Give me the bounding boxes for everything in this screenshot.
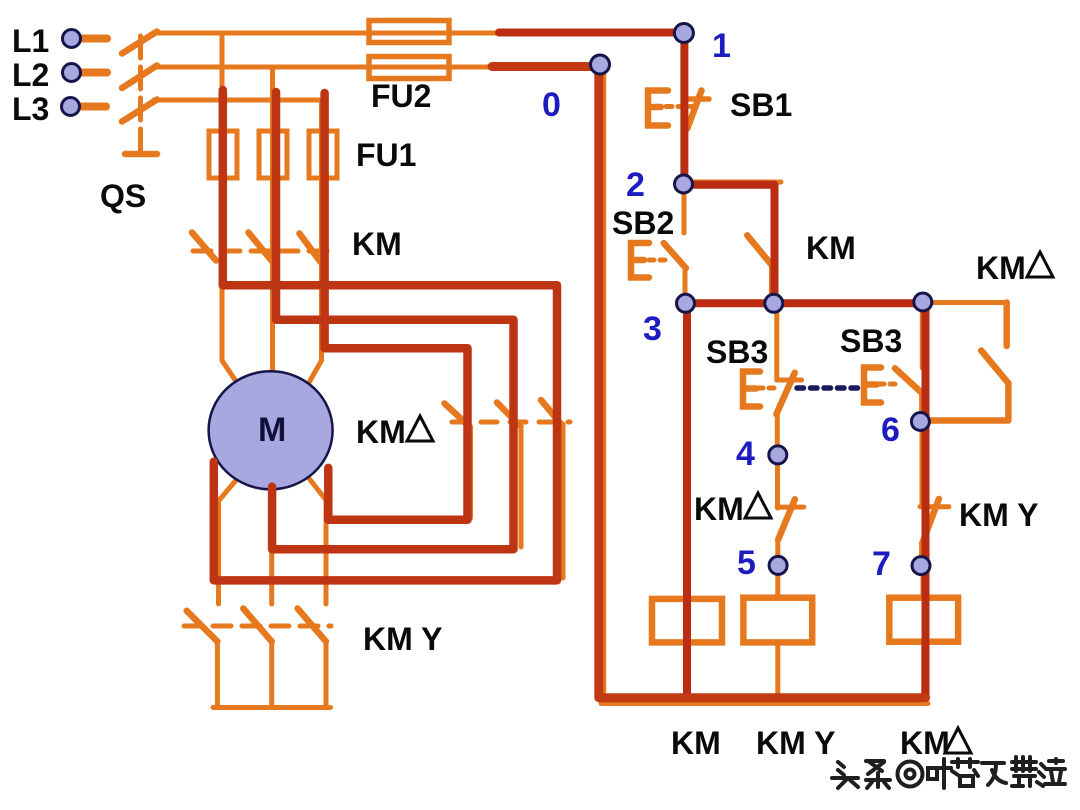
wire KM-delta pole 2 down xyxy=(519,426,524,548)
svg-text:4: 4 xyxy=(736,435,755,473)
contactor KM main pole 3 blade xyxy=(300,234,321,263)
highlight control from L1 to node2 xyxy=(499,33,684,185)
contactor KM-delta pole 1 blade xyxy=(445,404,470,427)
svg-text:KM Y: KM Y xyxy=(363,621,442,657)
svg-text:KM: KM xyxy=(352,226,402,262)
wire KM aux to node xyxy=(769,265,774,304)
svg-text:KM: KM xyxy=(694,491,744,527)
svg-text:1: 1 xyxy=(712,27,731,65)
wire node4 to KM-delta NC xyxy=(775,461,780,508)
wire KM-delta pole 3 down xyxy=(561,424,566,578)
wire phase B vertical xyxy=(270,67,275,370)
wire node to SB3 right xyxy=(920,304,925,368)
highlight L2 to node0 return bus xyxy=(492,67,926,698)
wire SB3 right to node6 xyxy=(919,392,924,422)
contactor KM main pole 1 blade xyxy=(192,233,216,261)
wire KM-delta aux to node6 xyxy=(927,417,1008,424)
highlight path phase A delta xyxy=(214,90,557,580)
contactor KM-Y pole 2 blade xyxy=(243,609,271,642)
highlight path phase C delta xyxy=(325,93,468,520)
wire SB2 to node3 xyxy=(683,268,688,304)
contactor KM-delta pole 2 blade xyxy=(497,403,520,426)
pushbutton SB1 tick xyxy=(686,96,709,102)
wire phase C vertical xyxy=(309,100,322,383)
wire phase L3 horizontal xyxy=(154,98,324,103)
switch QS pole 1 blade xyxy=(122,32,157,54)
svg-text:3: 3 xyxy=(643,310,662,348)
coil KM xyxy=(652,599,722,643)
wire blade to node5 xyxy=(775,540,780,565)
pushbutton SB2 link dots xyxy=(649,258,668,263)
node 1 xyxy=(674,24,693,43)
wire node2 to SB2 xyxy=(682,184,687,233)
svg-text:KM: KM xyxy=(671,725,721,761)
highlight node2 branch to rung3 xyxy=(683,185,775,303)
pushbutton SB1 cap xyxy=(648,91,668,126)
node junction rung3 right xyxy=(914,293,932,311)
wire coil KM-delta to bus xyxy=(921,642,926,704)
wire KM-delta aux down xyxy=(1005,383,1012,418)
wire node5 to coil KM-Y xyxy=(775,565,780,598)
contact KM-delta aux blade xyxy=(981,351,1008,384)
coil KM-delta xyxy=(889,598,958,642)
mechanical link SB3 dotted xyxy=(797,385,864,391)
motor lead bottom-middle xyxy=(269,496,274,604)
svg-text:FU1: FU1 xyxy=(356,137,416,173)
fuse FU1 pole 2 xyxy=(259,131,287,178)
switch QS linkage xyxy=(125,36,157,154)
wire node6 to KM-Y NC xyxy=(920,428,925,505)
svg-text:2: 2 xyxy=(626,166,645,204)
svg-text:0: 0 xyxy=(542,86,561,124)
fuse FU2 lower xyxy=(369,57,449,79)
contact KM-Y NC blade xyxy=(922,499,939,543)
fuse FU1 pole 1 xyxy=(209,131,237,178)
wire node0 return vertical xyxy=(601,65,606,704)
node junction rung3 mid xyxy=(765,294,783,312)
terminal L1 xyxy=(12,23,107,59)
node 2 xyxy=(675,175,693,193)
switch QS pole 3 blade xyxy=(122,100,157,122)
wire node3 down through KM coil to bus xyxy=(684,304,689,700)
contact KM aux blade xyxy=(747,235,771,264)
node 7 xyxy=(912,557,930,575)
terminal L2 xyxy=(12,57,107,93)
wire phase L2 horizontal xyxy=(154,65,602,70)
contact KM-delta NC tick xyxy=(777,505,804,510)
label coil KM-delta xyxy=(900,725,971,761)
terminal L3 xyxy=(12,91,106,127)
motor M xyxy=(209,371,333,489)
control wire from node1 down through SB1 to node2 xyxy=(682,33,687,184)
highlight path phase B delta xyxy=(272,92,513,549)
wire node2 to KM aux branch xyxy=(684,182,781,232)
wire KM-Y pole 2 down xyxy=(269,642,274,708)
svg-text:KM: KM xyxy=(356,414,406,450)
svg-text:KM: KM xyxy=(806,230,856,266)
pushbutton SB3 right link dots xyxy=(879,382,900,387)
wire coil KM-Y to bus xyxy=(775,642,780,703)
switch QS pole 2 blade xyxy=(122,66,157,89)
contactor KM-Y linkage xyxy=(184,624,331,629)
node 6 xyxy=(911,413,929,431)
wire KM-Y pole 3 down xyxy=(324,642,329,708)
watermark xyxy=(832,757,1065,788)
svg-text:SB3: SB3 xyxy=(840,323,902,359)
wire rung3 horizontal xyxy=(685,300,1007,305)
svg-text:7: 7 xyxy=(872,545,891,583)
highlight KM-delta coil branch xyxy=(922,303,930,698)
wire bottom bus orange xyxy=(601,701,928,706)
svg-text:FU2: FU2 xyxy=(371,78,431,114)
contactor KM-delta linkage xyxy=(452,420,570,425)
contactor KM main pole 2 blade xyxy=(249,233,272,262)
wire node to SB3 left xyxy=(774,304,779,380)
label KM-delta aux xyxy=(976,250,1053,286)
highlight rung3 horizontal xyxy=(685,299,926,307)
label KM-delta middle xyxy=(356,414,433,450)
pushbutton SB3 left tick xyxy=(777,378,802,383)
svg-text:5: 5 xyxy=(737,544,756,582)
pushbutton SB2 cap xyxy=(631,243,649,278)
contactor KM main linkage xyxy=(193,249,327,254)
svg-text:KM Y: KM Y xyxy=(959,497,1038,533)
node 0 xyxy=(591,55,610,74)
motor lead bottom-right xyxy=(308,477,327,605)
svg-text:SB2: SB2 xyxy=(612,205,674,241)
svg-text:L1: L1 xyxy=(12,23,49,59)
pushbutton SB3 left blade xyxy=(776,373,794,414)
contact KM-delta NC blade xyxy=(778,499,795,540)
svg-text:SB1: SB1 xyxy=(730,87,792,123)
contact KM-delta aux top stub xyxy=(1003,303,1010,347)
wire phase A vertical xyxy=(222,33,237,382)
node 3 xyxy=(677,294,695,312)
wire node7 to coil KM-delta xyxy=(921,565,926,598)
pushbutton SB3 right cap xyxy=(864,368,881,403)
svg-text:KM: KM xyxy=(976,250,1026,286)
pushbutton SB1 blade xyxy=(687,91,701,129)
contactor KM-delta pole 3 blade xyxy=(541,400,561,424)
pushbutton SB3 left link dots xyxy=(758,386,776,391)
coil KM-Y xyxy=(743,598,812,643)
svg-text:SB3: SB3 xyxy=(706,334,768,370)
wire SB3 left to node4 xyxy=(775,414,780,449)
svg-text:KM Y: KM Y xyxy=(756,725,835,761)
svg-text:QS: QS xyxy=(100,178,146,214)
wire KM-delta pole 1 down xyxy=(468,427,473,519)
motor lead bottom-left xyxy=(219,479,238,604)
wire phase L1 horizontal xyxy=(154,31,686,36)
pushbutton SB2 blade xyxy=(664,243,686,268)
node 4 xyxy=(769,446,787,464)
contactor KM-Y pole 3 blade xyxy=(298,609,326,642)
svg-text:L2: L2 xyxy=(12,57,49,93)
pushbutton SB3 left cap xyxy=(743,372,760,407)
svg-text:KM: KM xyxy=(900,725,950,761)
highlight KM coil branch xyxy=(683,303,691,698)
contact KM-Y NC tick xyxy=(920,504,949,509)
fuse FU1 pole 3 xyxy=(309,131,337,178)
node 5 xyxy=(769,556,787,574)
wire KM-Y pole 1 down xyxy=(215,642,220,708)
fuse FU2 upper xyxy=(369,21,449,43)
pushbutton SB1 link dots xyxy=(666,104,694,109)
contactor KM-Y pole 1 blade xyxy=(187,611,218,642)
svg-text:M: M xyxy=(258,411,286,449)
svg-text:6: 6 xyxy=(881,411,900,449)
svg-text:L3: L3 xyxy=(12,91,49,127)
label KM-delta NC xyxy=(694,491,771,527)
star point bar xyxy=(213,705,331,710)
pushbutton SB3 right blade xyxy=(895,368,921,391)
wire blade to node7 xyxy=(919,543,924,565)
